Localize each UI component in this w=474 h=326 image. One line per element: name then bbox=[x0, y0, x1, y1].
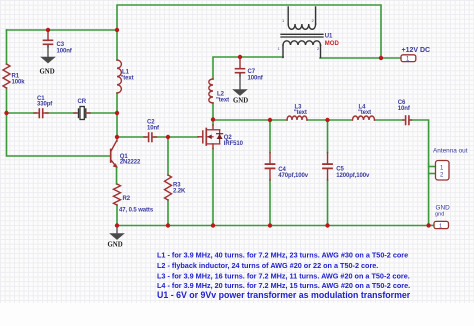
wire bottom ground rail bbox=[117, 225, 429, 227]
wire C2 right to Q2 gate bbox=[154, 136, 198, 138]
inductor L3 bbox=[287, 105, 307, 121]
wire antenna column down to ground rail bbox=[428, 164, 430, 225]
wire R3 bottom lead bbox=[167, 200, 169, 226]
svg-text:C7: C7 bbox=[248, 69, 256, 75]
resistor R2 bbox=[114, 184, 154, 214]
svg-text:R2: R2 bbox=[123, 196, 131, 202]
wire C5 top lead bbox=[327, 120, 329, 153]
svg-text:"text: "text bbox=[358, 110, 371, 116]
wire antenna pin2 stub bbox=[429, 173, 436, 175]
transistor Q2 (MOSFET) bbox=[198, 125, 244, 149]
inductor L4 bbox=[353, 105, 375, 121]
svg-text:"text: "text bbox=[216, 98, 229, 104]
svg-text:MOD: MOD bbox=[325, 41, 340, 47]
resistor R1 bbox=[3, 64, 10, 88]
capacitor C4 bbox=[266, 153, 309, 181]
wire C1 to CR bbox=[46, 112, 76, 114]
crystal CR bbox=[74, 99, 90, 120]
wire C4 top lead bbox=[269, 120, 271, 153]
svg-text:L2 - flyback inductor, 24 turn: L2 - flyback inductor, 24 turns of AWG #… bbox=[157, 261, 378, 270]
svg-text:47, 0.5 watts: 47, 0.5 watts bbox=[119, 208, 154, 214]
wire left rail upper (R1 top lead) bbox=[6, 30, 8, 64]
wire L4 to C6 bbox=[375, 119, 404, 121]
svg-text:1: 1 bbox=[282, 18, 285, 23]
ground under C7 bbox=[233, 74, 248, 105]
inductor L2 bbox=[209, 79, 229, 104]
svg-text:CR: CR bbox=[78, 99, 87, 105]
wire C2 left segment bbox=[117, 136, 146, 138]
wire L3 to L4 bbox=[307, 119, 352, 121]
svg-text:U1 - 6V or 9Vv power transform: U1 - 6V or 9Vv power transformer as modu… bbox=[157, 290, 411, 300]
wire L1 bottom lead bbox=[116, 93, 118, 113]
wire C4 bottom lead bbox=[269, 180, 271, 226]
svg-text:C3: C3 bbox=[57, 42, 65, 48]
svg-text:100k: 100k bbox=[12, 80, 26, 86]
svg-text:2: 2 bbox=[312, 18, 315, 23]
wire L1 node to Q1 collector bbox=[116, 113, 118, 141]
svg-text:470pf,100v: 470pf,100v bbox=[278, 173, 308, 179]
inductor L1 bbox=[117, 60, 134, 93]
svg-text:L1 - for 3.9 MHz, 40 turns. fo: L1 - for 3.9 MHz, 40 turns. for 7.2 MHz,… bbox=[157, 250, 408, 259]
svg-text:10nf: 10nf bbox=[398, 106, 411, 112]
wire L2 top lead and horizontal to transformer bbox=[213, 57, 283, 79]
svg-text:U1: U1 bbox=[325, 34, 333, 40]
wire L1 top lead bbox=[116, 30, 118, 60]
wire oscillator top rail bbox=[7, 29, 118, 31]
connector +12V DC bbox=[401, 47, 430, 63]
wire transformer right to +12V junction bbox=[320, 57, 381, 59]
wire top +12V rail bbox=[117, 5, 381, 58]
svg-text:2: 2 bbox=[317, 46, 320, 51]
transformer U1 bbox=[278, 7, 340, 58]
svg-text:C5: C5 bbox=[336, 167, 344, 173]
svg-text:"text: "text bbox=[294, 110, 307, 116]
wire drain node to L2 bbox=[212, 103, 214, 120]
svg-text:1: 1 bbox=[439, 224, 442, 230]
svg-text:GND: GND bbox=[233, 98, 248, 105]
wire Q1 emitter to R2 bbox=[116, 167, 118, 184]
wire Q2 drain up bbox=[212, 120, 214, 126]
svg-text:1: 1 bbox=[278, 46, 281, 51]
svg-text:1200pf,100v: 1200pf,100v bbox=[336, 173, 370, 179]
transistor Q1 bbox=[111, 141, 141, 168]
svg-text:Antenna out: Antenna out bbox=[433, 148, 468, 155]
connector Antenna out bbox=[433, 148, 468, 181]
svg-text:100nf: 100nf bbox=[248, 76, 264, 82]
svg-text:gnd: gnd bbox=[435, 212, 444, 218]
capacitor C3 bbox=[44, 31, 73, 55]
svg-text:GND: GND bbox=[108, 242, 123, 249]
svg-text:GND: GND bbox=[40, 69, 55, 76]
svg-text:2N2222: 2N2222 bbox=[120, 160, 141, 166]
ground under R2 rail bbox=[108, 226, 125, 249]
svg-text:IRF510: IRF510 bbox=[224, 141, 244, 147]
ground under C3 bbox=[40, 46, 56, 76]
resistor R3 bbox=[165, 175, 187, 200]
wire C5 bottom lead bbox=[327, 180, 329, 226]
wire stub to +12V connector bbox=[381, 57, 401, 59]
wire left down to Q1 base bbox=[7, 113, 110, 156]
capacitor C2 bbox=[144, 120, 160, 142]
wire C6 to antenna column bbox=[411, 120, 429, 164]
svg-text:330pf: 330pf bbox=[37, 102, 53, 108]
wire Q2 source down bbox=[212, 149, 214, 226]
svg-text:GND: GND bbox=[436, 205, 451, 212]
wire R2 to ground rail bbox=[116, 205, 118, 226]
wire CR to L1 column bbox=[88, 112, 117, 114]
svg-text:100nf: 100nf bbox=[57, 49, 73, 55]
svg-text:L4 - for 3.9 MHz, 20 turns. fo: L4 - for 3.9 MHz, 20 turns. for 7.2 MHz,… bbox=[157, 281, 410, 290]
wire antenna pin1 stub bbox=[429, 166, 436, 168]
wire gnd connector stub bbox=[429, 224, 434, 226]
svg-text:"text: "text bbox=[121, 76, 134, 82]
svg-text:L3 - for 3.9 MHz, 16 turns. fo: L3 - for 3.9 MHz, 16 turns. for 7.2 MHz,… bbox=[157, 271, 410, 280]
svg-text:+12V DC: +12V DC bbox=[402, 47, 431, 54]
svg-text:2.2K: 2.2K bbox=[173, 189, 186, 195]
capacitor C6 bbox=[398, 100, 412, 125]
svg-text:10nf: 10nf bbox=[147, 126, 160, 132]
wire left rail lower (R1 bottom lead) bbox=[6, 88, 8, 113]
wire R3 top lead bbox=[167, 137, 169, 175]
capacitor C7 bbox=[236, 58, 264, 82]
wire drain rail to L3 bbox=[213, 119, 287, 121]
wire feedback node C1 left bbox=[7, 112, 37, 114]
connector GND bbox=[434, 205, 450, 230]
capacitor C5 bbox=[323, 153, 370, 181]
capacitor C1 bbox=[34, 96, 53, 118]
